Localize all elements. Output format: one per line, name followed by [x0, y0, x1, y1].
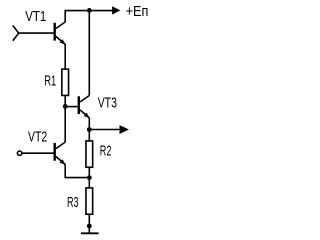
svg-text:+Еп: +Еп — [126, 4, 149, 20]
svg-text:VT3: VT3 — [98, 96, 117, 112]
svg-text:R3: R3 — [67, 195, 79, 211]
svg-text:VT1: VT1 — [25, 9, 46, 25]
svg-text:VT2: VT2 — [28, 130, 47, 146]
svg-text:R2: R2 — [100, 144, 112, 160]
svg-text:R1: R1 — [44, 74, 56, 90]
